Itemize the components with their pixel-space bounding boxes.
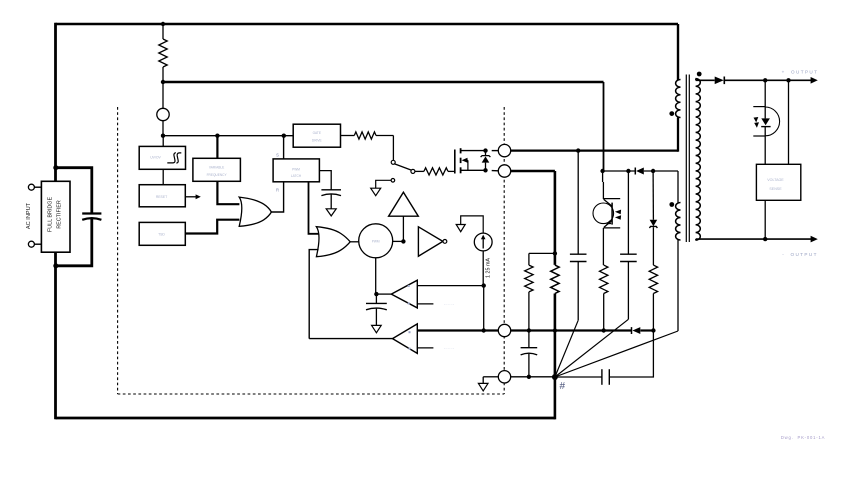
svg-text:UV/OV: UV/OV bbox=[150, 156, 161, 160]
wire: source bus down bbox=[554, 171, 557, 265]
svg-text:VARIABLE: VARIABLE bbox=[209, 165, 224, 169]
node: control row R3 tap bbox=[602, 328, 606, 332]
wire: primary feed drop bbox=[677, 24, 679, 80]
glyph: LED emission arrows bbox=[754, 117, 759, 122]
capacitor C2 bbox=[620, 253, 637, 255]
wire: C1 bottom lead bbox=[577, 262, 579, 321]
node: primary polarity dot bbox=[669, 111, 674, 116]
wire: star diagonal to C2 bbox=[555, 319, 629, 377]
svg-text:1 25 mA: 1 25 mA bbox=[486, 258, 492, 278]
ground: C5 ground bbox=[372, 325, 382, 332]
inductor T1 bias winding bbox=[676, 203, 681, 241]
capacitor C-IN bulk bbox=[82, 212, 101, 214]
svg-text:AC INPUT: AC INPUT bbox=[26, 202, 32, 229]
transistor Q1 power MOSFET bbox=[454, 150, 456, 174]
wire: NOR2 out bbox=[350, 241, 358, 243]
op-amp U7 summing circle bbox=[359, 224, 393, 258]
wire: bias feedback row bbox=[603, 170, 636, 172]
inverter U9 bbox=[418, 227, 443, 256]
wire: bias top lead bbox=[677, 171, 679, 203]
rectifier BR1: FULL BRIDGE RECTIFIER box bbox=[41, 181, 70, 252]
node: I1 comp1 tap bbox=[482, 283, 486, 287]
wire: NOR2 lower input bbox=[309, 250, 318, 339]
IC boundary: left dashed edge bbox=[117, 107, 119, 394]
wire: source lead bbox=[492, 170, 499, 172]
wire: HV+ top rail bbox=[56, 23, 679, 26]
resistor R-SENSE inline bbox=[551, 265, 559, 293]
switch SW1 throw bbox=[411, 169, 415, 173]
wire: bottom return rail bbox=[56, 417, 555, 420]
svg-text:RECTIFIER: RECTIFIER bbox=[57, 200, 63, 229]
wire: TSD to OR1 bbox=[185, 220, 239, 234]
comparator U11 bbox=[393, 324, 418, 354]
wire: control row right bbox=[511, 329, 632, 331]
wire: I1 top bbox=[461, 216, 484, 233]
pin: CONTROL pin circle bbox=[498, 324, 510, 336]
node: secondary polarity dot bbox=[697, 72, 702, 77]
wire: + output line bbox=[724, 79, 811, 81]
node: bias diode left node bbox=[626, 169, 630, 173]
node: R2 stub node bbox=[553, 251, 557, 255]
wire: comp1 + input bbox=[417, 285, 483, 287]
wire: opto emitter bbox=[602, 228, 604, 265]
diode Z2 bias zener bbox=[650, 220, 658, 227]
node: sense tap bbox=[786, 78, 790, 82]
capacitor C3 bbox=[521, 347, 538, 349]
wire: comp2 - stub bbox=[417, 347, 433, 349]
node: rectifier + node bbox=[53, 165, 58, 170]
resistor R3 bbox=[600, 265, 608, 293]
wire: secondary top lead bbox=[695, 79, 697, 81]
resistor R-START bbox=[162, 24, 164, 39]
node: top rail / R-start bbox=[161, 22, 165, 26]
wire: summing bottom bbox=[375, 258, 377, 294]
wire: - output line bbox=[695, 239, 697, 240]
transistor Q2 opto phototransistor bbox=[593, 203, 614, 224]
wire: drain lead bbox=[492, 150, 499, 152]
svg-text:PWM: PWM bbox=[372, 240, 380, 244]
block U2: RESET box bbox=[139, 185, 185, 207]
wire: OR1 out to R input bbox=[271, 182, 283, 212]
wire: pin BP drop bbox=[162, 82, 164, 108]
wire: star to C4 bbox=[555, 376, 602, 378]
node: I1 control tap bbox=[482, 328, 486, 332]
svg-text:- OUTPUT: - OUTPUT bbox=[782, 252, 818, 257]
inductor T1 primary winding bbox=[676, 80, 681, 118]
svg-text:GATE: GATE bbox=[313, 131, 321, 135]
glyph: comp2 marks bbox=[409, 331, 411, 333]
capacitor C5 bbox=[366, 302, 387, 304]
resistor R4 bbox=[649, 265, 657, 293]
wire: star diagonal to C1 bbox=[555, 320, 578, 377]
wire: C1 top lead bbox=[577, 151, 579, 255]
wire: zener string top bbox=[652, 171, 654, 220]
svg-text:R: R bbox=[276, 188, 279, 193]
pin: control pin circle bbox=[157, 108, 169, 120]
wire: left bus down bbox=[54, 23, 57, 420]
block U12: VOLTAGE SENSE box bbox=[756, 164, 800, 200]
svg-text:- · - · -: - · - · - bbox=[444, 346, 453, 350]
svg-text:#: # bbox=[560, 381, 566, 392]
svg-text:DRIVE: DRIVE bbox=[312, 138, 322, 142]
wire: R2 stub bbox=[529, 252, 554, 254]
switch SW1 pole bbox=[391, 160, 395, 164]
arrow: + output arrowhead bbox=[811, 77, 818, 84]
resistor R-DRIVE bbox=[341, 135, 355, 137]
node: latch S tap bbox=[282, 134, 286, 138]
wire: ground row bbox=[511, 376, 555, 378]
wire: bias rail drop bbox=[603, 82, 605, 171]
pin: SOURCE pin circle bbox=[498, 165, 510, 177]
core: transformer core lines bbox=[685, 75, 687, 243]
svg-text:LATCH: LATCH bbox=[291, 174, 302, 178]
node: osc tap bbox=[215, 134, 219, 138]
terminal: AC line 1 bbox=[28, 184, 34, 190]
block U6: GATE DRIVE box bbox=[293, 124, 340, 147]
wire: C2 top lead bbox=[627, 171, 629, 254]
node: internal supply node bbox=[161, 134, 165, 138]
wire: drain rail to primary bbox=[511, 149, 678, 151]
IC boundary: bottom dashed edge bbox=[118, 393, 505, 395]
wire: bias bottom lead bbox=[677, 239, 679, 331]
wire: primary bottom bbox=[677, 118, 679, 152]
ground: I1 ground bbox=[456, 225, 465, 232]
pin: DRAIN pin circle bbox=[498, 144, 510, 156]
svg-text:VOLTAGE: VOLTAGE bbox=[767, 178, 784, 182]
diode Z1 drain clamp zener bbox=[485, 151, 487, 156]
wire: star diagonal to bias return bbox=[555, 331, 678, 377]
svg-text:Dwg. PK-001-1A: Dwg. PK-001-1A bbox=[781, 435, 825, 440]
wire: internal supply bus bbox=[163, 135, 293, 137]
svg-text:- · - · -: - · - · - bbox=[444, 302, 453, 306]
node: bias diode right node bbox=[651, 169, 655, 173]
diode D-FB bbox=[632, 327, 640, 334]
glyph: photo arrows into Q2 bbox=[615, 210, 621, 215]
diode D-LED opto LED bbox=[764, 80, 766, 118]
wire: C3 leads bbox=[528, 331, 530, 348]
svg-text:SENSE: SENSE bbox=[769, 187, 782, 191]
node: sense return tap bbox=[763, 237, 767, 241]
block U4: VARIABLE FREQUENCY oscillator box bbox=[193, 158, 241, 181]
node: source clamp bottom bbox=[483, 168, 487, 172]
ground: switch idle ground bbox=[371, 188, 381, 196]
wire: comp2 tip lead bbox=[309, 338, 392, 340]
wire: R3 bottom bbox=[603, 294, 605, 331]
amplifier U8 error amp triangle bbox=[389, 192, 419, 216]
wire: zener to R4 bbox=[652, 227, 654, 265]
wire: comp1 - stub bbox=[417, 303, 433, 305]
node: drive node bbox=[401, 239, 405, 243]
arrow: - output arrowhead bbox=[811, 236, 818, 243]
switch SW1 lever bbox=[395, 164, 412, 170]
svg-text:+ OUTPUT: + OUTPUT bbox=[782, 70, 819, 75]
wire: UV/OV in bbox=[162, 136, 164, 147]
inductor T1 secondary winding bbox=[696, 79, 701, 241]
wire: bias rail bbox=[163, 81, 604, 83]
wire: latch Qb to NOR2 bbox=[309, 182, 319, 234]
comparator U10 bbox=[391, 280, 417, 308]
resistor R2 bbox=[525, 265, 533, 292]
wire: R2 bottom bbox=[528, 292, 530, 331]
switch SW1 idle throw bbox=[391, 179, 395, 183]
IC boundary: right dashed edge bbox=[503, 107, 505, 394]
wire: ground pin lead bbox=[483, 376, 498, 378]
pin: GROUND pin circle bbox=[498, 371, 510, 383]
wire: drive drop to switch bbox=[392, 136, 394, 161]
wire: bulk cap loop bbox=[56, 168, 92, 214]
wire: source bus down 2 bbox=[554, 294, 557, 420]
wire: C2 bottom lead bbox=[627, 262, 629, 320]
diode D-OUT bbox=[715, 77, 724, 85]
wire: osc to OR1 bbox=[217, 181, 239, 204]
gate OR1 bbox=[239, 197, 271, 226]
capacitor C4 bbox=[601, 369, 603, 385]
wire: comp1 tip lead bbox=[376, 293, 391, 295]
glyph: comp1 marks bbox=[408, 285, 410, 287]
wire: C5 leads bbox=[375, 294, 377, 303]
arrow: reset control arrow bbox=[185, 196, 196, 198]
node: drain clamp top bbox=[483, 148, 487, 152]
svg-text:RESET: RESET bbox=[156, 195, 167, 199]
glyph: hysteresis symbol bbox=[167, 153, 181, 163]
current source I1 bbox=[474, 233, 492, 251]
wire: latch Q to cap bbox=[319, 171, 331, 190]
wire: below control pin bbox=[162, 121, 164, 136]
block U1: UV/OV comparator box bbox=[139, 146, 185, 169]
wire: C4 to R4 leg bbox=[609, 331, 653, 378]
wire: sense bottom lead bbox=[764, 200, 766, 239]
node: rectifier - node bbox=[53, 263, 58, 268]
node: ground row cap tap bbox=[527, 375, 531, 379]
resistor R-GATE bbox=[415, 170, 424, 172]
wire: summing out bbox=[393, 240, 404, 242]
node: snubber tap bbox=[576, 148, 580, 152]
wire: control row left bbox=[417, 329, 498, 331]
node: control row R2 tap bbox=[527, 328, 531, 332]
wire: I1 bottom bbox=[482, 251, 484, 286]
ground: latch cap ground bbox=[326, 209, 336, 216]
gate NOR2 bbox=[316, 227, 350, 257]
wire: osc top bbox=[216, 136, 218, 159]
wire: sense right lead bbox=[788, 80, 790, 164]
capacitor C1 bbox=[570, 253, 587, 255]
node: comp1 node bbox=[374, 292, 378, 296]
svg-text:PWM: PWM bbox=[292, 167, 300, 171]
svg-text:S: S bbox=[276, 153, 279, 158]
node: star ground node bbox=[552, 374, 558, 380]
node: control row R4 tap bbox=[651, 328, 655, 332]
svg-text:TSD: TSD bbox=[158, 233, 165, 237]
svg-text:FULL BRIDGE: FULL BRIDGE bbox=[48, 197, 54, 233]
wire: C-latch to gnd bbox=[330, 194, 332, 208]
wire: latch S input bbox=[283, 136, 285, 159]
node: control row bus cross bbox=[553, 328, 557, 332]
svg-text:FREQUENCY: FREQUENCY bbox=[207, 173, 228, 177]
node: bias rail tap bbox=[600, 169, 604, 173]
wire: opto collector bbox=[602, 171, 604, 182]
block U3: TSD box bbox=[139, 222, 185, 245]
node: R-start bottom bbox=[161, 80, 165, 84]
block U5: PWM LATCH box bbox=[273, 159, 319, 182]
node: opto tap bbox=[763, 78, 767, 82]
wire: I1 to control row bbox=[483, 286, 485, 331]
wire: UV/OV to reset bbox=[162, 169, 164, 184]
wire: U8 stem bbox=[402, 216, 404, 241]
capacitor C-LATCH bbox=[321, 189, 341, 191]
diode D-BIAS bbox=[636, 168, 644, 175]
node: bias polarity dot bbox=[669, 202, 674, 207]
wire: R2 top lead bbox=[528, 253, 530, 265]
ground: IC ground symbol bbox=[478, 383, 488, 391]
terminal: AC line 2 bbox=[28, 241, 34, 247]
wire: R4 bottom bbox=[652, 294, 654, 331]
wire: source rail bbox=[511, 170, 555, 172]
